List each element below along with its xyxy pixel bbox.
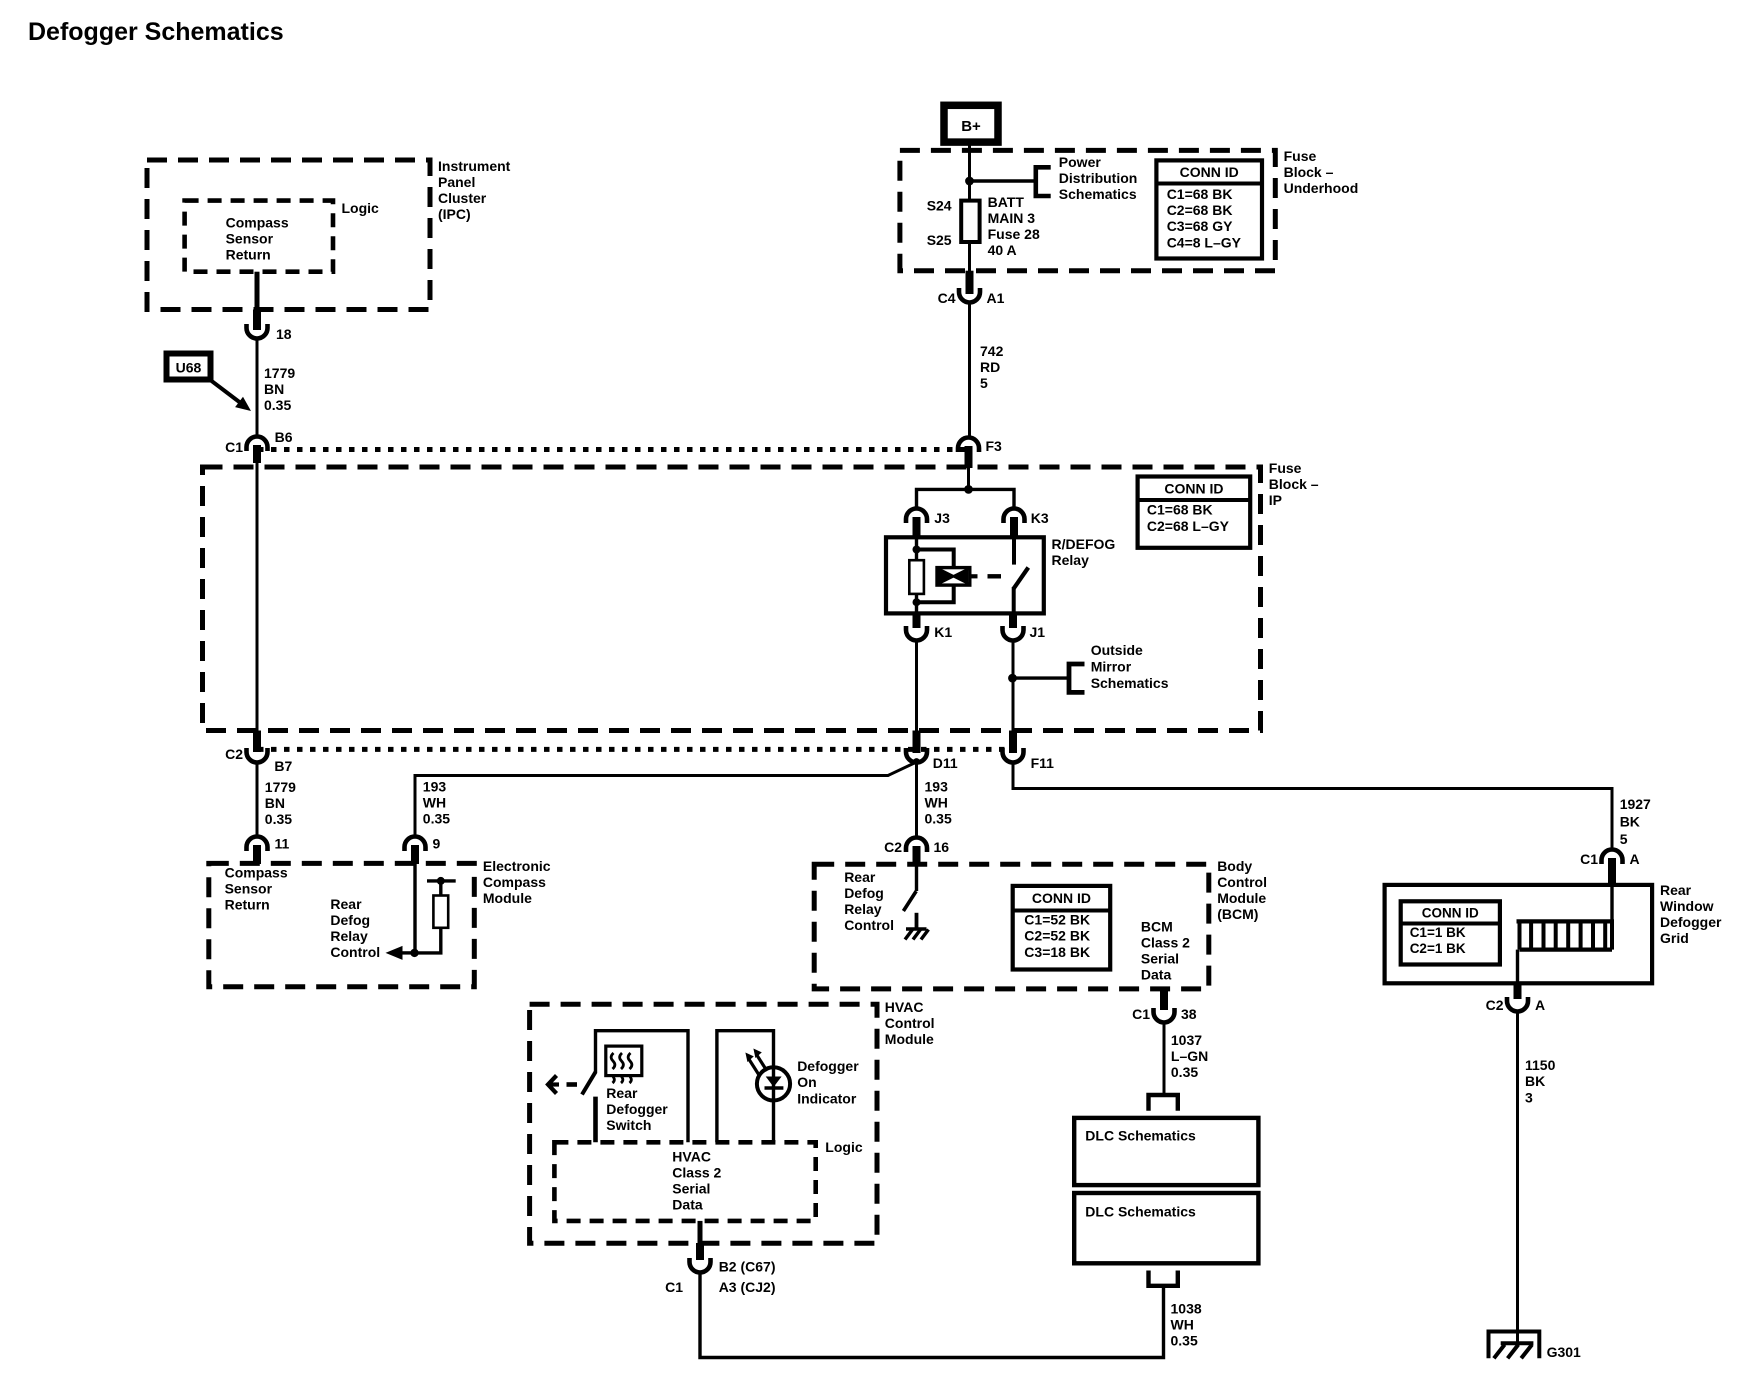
svg-text:0.35: 0.35 bbox=[264, 397, 291, 413]
svg-text:1779: 1779 bbox=[264, 365, 295, 381]
svg-text:Rear: Rear bbox=[606, 1085, 638, 1101]
pin stub K3 bbox=[1010, 517, 1018, 538]
wire 1037 L-GN bbox=[1163, 1023, 1166, 1096]
rear defogger heater icon bbox=[606, 1046, 642, 1076]
svg-text:Defogger: Defogger bbox=[797, 1058, 859, 1074]
off-page tab: Outside Mirror Schematics bbox=[1069, 664, 1085, 692]
fuse BATT MAIN 3 Fuse 28 40 A bbox=[961, 201, 979, 242]
svg-text:A: A bbox=[1535, 997, 1545, 1013]
svg-text:0.35: 0.35 bbox=[1171, 1333, 1198, 1349]
svg-text:193: 193 bbox=[925, 779, 949, 795]
junction: pull-up rail bbox=[437, 877, 445, 885]
wire: C1/A into grid bbox=[1610, 884, 1613, 921]
svg-text:B+: B+ bbox=[961, 118, 981, 135]
connector pin 9 bbox=[405, 837, 426, 851]
svg-text:D11: D11 bbox=[933, 755, 958, 771]
BCM output driver switch blade bbox=[903, 891, 916, 911]
wire: switch branch top bbox=[596, 1031, 689, 1143]
internal ground symbol (BCM) bbox=[906, 927, 927, 931]
svg-text:C2: C2 bbox=[1486, 997, 1504, 1013]
wire: 16 to driver switch bbox=[915, 865, 918, 891]
svg-text:11: 11 bbox=[275, 836, 290, 852]
svg-text:L–GN: L–GN bbox=[1171, 1048, 1208, 1064]
svg-text:WH: WH bbox=[925, 795, 948, 811]
svg-text:Logic: Logic bbox=[825, 1139, 863, 1155]
svg-text:Control: Control bbox=[885, 1015, 935, 1031]
svg-text:BATT: BATT bbox=[988, 194, 1025, 210]
wire: logic to C1 pin bbox=[698, 1221, 703, 1244]
relay switch lower contact wire bbox=[1012, 587, 1016, 613]
svg-text:Logic: Logic bbox=[342, 200, 380, 216]
svg-text:0.35: 0.35 bbox=[423, 811, 450, 827]
svg-text:G301: G301 bbox=[1547, 1344, 1581, 1360]
pin stub 9 bbox=[411, 845, 419, 864]
svg-text:Class 2: Class 2 bbox=[672, 1165, 721, 1181]
svg-text:WH: WH bbox=[423, 795, 446, 811]
module box: Fuse Block - Underhood bbox=[900, 150, 1275, 270]
pin stub 18 bbox=[253, 310, 261, 331]
wire: B+ to fuse bbox=[968, 142, 971, 201]
svg-text:C3=68 GY: C3=68 GY bbox=[1167, 218, 1233, 234]
pin stub C2/16 bbox=[913, 846, 921, 866]
junction: outside mirror tap bbox=[1008, 674, 1017, 683]
svg-text:5: 5 bbox=[980, 375, 988, 391]
svg-text:Body: Body bbox=[1217, 858, 1252, 874]
svg-text:K1: K1 bbox=[934, 624, 952, 640]
svg-text:1038: 1038 bbox=[1171, 1301, 1202, 1317]
wire: switch lower contact bbox=[593, 1097, 598, 1143]
svg-text:742: 742 bbox=[980, 343, 1004, 359]
svg-text:WH: WH bbox=[1171, 1317, 1194, 1333]
junction: control node bbox=[410, 949, 418, 957]
connector K1 bbox=[906, 626, 927, 641]
svg-text:J3: J3 bbox=[934, 510, 950, 526]
pin stub C4/A1 bbox=[966, 271, 974, 294]
svg-text:J1: J1 bbox=[1030, 624, 1046, 640]
svg-text:Window: Window bbox=[1660, 898, 1714, 914]
svg-text:Control: Control bbox=[1217, 874, 1267, 890]
svg-text:Outside: Outside bbox=[1091, 642, 1143, 658]
svg-text:(BCM): (BCM) bbox=[1217, 906, 1258, 922]
svg-text:BN: BN bbox=[264, 381, 284, 397]
svg-text:C2=52 BK: C2=52 BK bbox=[1024, 928, 1090, 944]
pin stub C1/B6 bbox=[253, 445, 261, 463]
svg-text:Rear: Rear bbox=[330, 896, 362, 912]
wire: rail to resistor bbox=[439, 881, 442, 896]
svg-text:1927: 1927 bbox=[1620, 796, 1651, 812]
wire 1038 WH: DLC to HVAC bbox=[700, 1273, 1164, 1358]
svg-text:Sensor: Sensor bbox=[226, 231, 274, 247]
svg-text:RD: RD bbox=[980, 359, 1000, 375]
svg-text:CONN ID: CONN ID bbox=[1422, 905, 1479, 920]
logic box: HVAC Logic bbox=[554, 1142, 815, 1221]
svg-text:Defogger: Defogger bbox=[606, 1101, 668, 1117]
wire: compass return through fuse block IP bbox=[256, 462, 259, 732]
module box: HVAC Control Module bbox=[530, 1004, 877, 1243]
connector F11 bbox=[1003, 748, 1024, 763]
wire 1150 BK 3 bbox=[1516, 1012, 1519, 1344]
svg-text:S24: S24 bbox=[927, 198, 952, 214]
logic box: IPC Logic bbox=[185, 201, 333, 272]
svg-text:A3 (CJ2): A3 (CJ2) bbox=[719, 1279, 776, 1295]
relay switch contact (from K3) bbox=[1012, 537, 1016, 564]
svg-text:Control: Control bbox=[844, 917, 894, 933]
svg-text:Module: Module bbox=[885, 1031, 934, 1047]
connector C1 / A (grid) bbox=[1602, 850, 1623, 865]
wire: F3 to relay junction bbox=[967, 466, 970, 489]
module box: Rear Window Defogger Grid bbox=[1385, 885, 1653, 983]
pin stub J3 bbox=[913, 517, 921, 538]
ground G301 bbox=[1489, 1332, 1540, 1359]
svg-text:K3: K3 bbox=[1031, 510, 1049, 526]
module box: Electronic Compass Module bbox=[209, 863, 475, 986]
wire: F11 to rear window defogger grid (1927 BK) bbox=[1013, 763, 1612, 850]
svg-text:F11: F11 bbox=[1031, 755, 1055, 771]
svg-text:Electronic: Electronic bbox=[483, 858, 551, 874]
wire: grid to C2/A bbox=[1516, 950, 1519, 984]
callout box U68 bbox=[167, 354, 211, 380]
svg-text:C1: C1 bbox=[1132, 1006, 1150, 1022]
svg-text:C1=1 BK: C1=1 BK bbox=[1410, 925, 1466, 940]
svg-text:Rear: Rear bbox=[1660, 882, 1692, 898]
svg-text:Control: Control bbox=[330, 944, 380, 960]
svg-text:Return: Return bbox=[226, 247, 271, 263]
connector C1 / B2(C67) A3(CJ2) bbox=[690, 1258, 711, 1273]
connector C1 / 38 bbox=[1154, 1008, 1175, 1023]
svg-text:B6: B6 bbox=[275, 429, 293, 445]
svg-text:MAIN 3: MAIN 3 bbox=[988, 210, 1036, 226]
svg-text:C1=68 BK: C1=68 BK bbox=[1147, 502, 1213, 518]
svg-text:Cluster: Cluster bbox=[438, 190, 487, 206]
wire: pin 9 into module bbox=[413, 863, 416, 953]
svg-text:Rear: Rear bbox=[844, 869, 876, 885]
relay actuation dashed link bbox=[988, 574, 1002, 578]
svg-text:Block –: Block – bbox=[1269, 476, 1319, 492]
svg-text:Panel: Panel bbox=[438, 174, 475, 190]
relay coil (box with X) bbox=[937, 568, 970, 586]
module box: Body Control Module (BCM) bbox=[814, 864, 1209, 989]
svg-text:Switch: Switch bbox=[606, 1117, 651, 1133]
junction: D11 splice bbox=[913, 758, 920, 765]
svg-text:Fuse 28: Fuse 28 bbox=[988, 226, 1040, 242]
conn id table: defogger grid bbox=[1401, 901, 1500, 964]
svg-text:0.35: 0.35 bbox=[1171, 1064, 1198, 1080]
svg-text:C1=68 BK: C1=68 BK bbox=[1167, 186, 1233, 202]
pin stub C1/38 bbox=[1160, 989, 1168, 1010]
connector C4 / A1 bbox=[959, 288, 980, 303]
connector pin 18 bbox=[247, 324, 268, 339]
svg-text:Compass: Compass bbox=[226, 215, 289, 231]
svg-text:9: 9 bbox=[433, 836, 441, 852]
wire: split to J3 and K3 bbox=[917, 489, 1015, 508]
svg-text:CONN ID: CONN ID bbox=[1164, 480, 1223, 496]
svg-text:18: 18 bbox=[276, 326, 292, 342]
svg-text:40 A: 40 A bbox=[988, 242, 1017, 258]
svg-text:R/DEFOG: R/DEFOG bbox=[1052, 536, 1116, 552]
junction: relay feed split bbox=[964, 485, 973, 494]
conn id table: Fuse Block IP bbox=[1138, 477, 1251, 548]
svg-text:Defog: Defog bbox=[330, 912, 370, 928]
svg-text:A: A bbox=[1630, 851, 1640, 867]
switch actuator arrow bbox=[548, 1076, 557, 1094]
conn id table: BCM bbox=[1013, 886, 1110, 970]
wire: J1 down to F11 bbox=[1012, 641, 1015, 733]
callout arrow U68 bbox=[209, 379, 240, 403]
switch actuator dashed link bbox=[567, 1082, 578, 1087]
relay coil branch wires bbox=[915, 537, 918, 560]
svg-text:38: 38 bbox=[1181, 1006, 1197, 1022]
pin stub K1 bbox=[913, 613, 921, 628]
connector C1 / B6 bbox=[247, 437, 268, 451]
svg-text:B7: B7 bbox=[274, 758, 292, 774]
svg-text:1037: 1037 bbox=[1171, 1032, 1202, 1048]
pin stub C1/A bbox=[1608, 858, 1616, 886]
svg-text:5: 5 bbox=[1620, 831, 1628, 847]
svg-text:On: On bbox=[797, 1074, 816, 1090]
svg-text:Data: Data bbox=[1141, 967, 1172, 983]
wire: tap to power distribution tab bbox=[970, 179, 1036, 182]
svg-text:Schematics: Schematics bbox=[1059, 186, 1137, 202]
svg-text:C2=1 BK: C2=1 BK bbox=[1410, 941, 1466, 956]
svg-text:DLC Schematics: DLC Schematics bbox=[1085, 1128, 1196, 1144]
pin stub D11 bbox=[913, 731, 921, 754]
off-page bracket (top DLC) bbox=[1149, 1095, 1178, 1111]
connector K3 bbox=[1004, 509, 1025, 523]
connector J3 bbox=[906, 509, 927, 523]
svg-text:0.35: 0.35 bbox=[925, 811, 952, 827]
svg-text:C2: C2 bbox=[884, 839, 902, 855]
svg-text:A1: A1 bbox=[987, 290, 1005, 306]
wire: switch to internal ground bbox=[915, 913, 919, 929]
LED indicator (Defogger On) bbox=[757, 1067, 790, 1100]
svg-text:Sensor: Sensor bbox=[225, 881, 273, 897]
svg-text:C4: C4 bbox=[938, 290, 956, 306]
svg-text:Class 2: Class 2 bbox=[1141, 935, 1190, 951]
svg-text:1150: 1150 bbox=[1525, 1057, 1556, 1073]
svg-text:C2=68 L–GY: C2=68 L–GY bbox=[1147, 518, 1230, 534]
svg-text:Relay: Relay bbox=[1052, 552, 1090, 568]
svg-text:U68: U68 bbox=[176, 360, 202, 376]
svg-text:Compass: Compass bbox=[483, 874, 546, 890]
svg-text:Serial: Serial bbox=[672, 1181, 710, 1197]
junction: power distribution tap bbox=[965, 177, 974, 186]
off-page tab: Power Distribution Schematics bbox=[1036, 167, 1051, 196]
connector J1 bbox=[1003, 626, 1024, 641]
reference box: DLC Schematics (2) bbox=[1074, 1193, 1258, 1263]
svg-text:S25: S25 bbox=[927, 232, 952, 248]
signal arrow: rear defog relay control bbox=[401, 951, 415, 954]
svg-text:DLC Schematics: DLC Schematics bbox=[1085, 1204, 1196, 1220]
resistor (compass module pull-up) bbox=[433, 896, 448, 928]
relay switch blade bbox=[1014, 568, 1029, 589]
svg-text:Grid: Grid bbox=[1660, 930, 1689, 946]
pin stub C2/B7 bbox=[253, 731, 261, 753]
svg-text:C1: C1 bbox=[665, 1279, 683, 1295]
svg-text:BK: BK bbox=[1620, 814, 1640, 830]
svg-text:C3=18 BK: C3=18 BK bbox=[1024, 944, 1090, 960]
svg-text:Defogger: Defogger bbox=[1660, 914, 1722, 930]
svg-text:Compass: Compass bbox=[225, 865, 288, 881]
wire: tap to outside mirror tab bbox=[1013, 676, 1069, 679]
svg-text:Relay: Relay bbox=[844, 901, 882, 917]
wire: K1 down to D11 bbox=[915, 641, 918, 733]
power symbol B+ bbox=[944, 105, 998, 142]
wire: compass sensor return inside IPC bbox=[255, 272, 260, 311]
pin stub F3 bbox=[965, 446, 973, 468]
harness dotted line (C1/B6 to F3) bbox=[258, 447, 968, 452]
svg-text:Defog: Defog bbox=[844, 885, 884, 901]
svg-text:Instrument: Instrument bbox=[438, 158, 511, 174]
pin stub F11 bbox=[1009, 731, 1017, 754]
svg-text:C4=8 L–GY: C4=8 L–GY bbox=[1167, 234, 1242, 250]
svg-text:Module: Module bbox=[1217, 890, 1266, 906]
svg-text:193: 193 bbox=[423, 779, 447, 795]
svg-text:C2=68 BK: C2=68 BK bbox=[1167, 202, 1233, 218]
svg-text:BN: BN bbox=[265, 795, 285, 811]
module box: Instrument Panel Cluster (IPC) bbox=[147, 160, 430, 310]
svg-text:Defogger Schematics: Defogger Schematics bbox=[28, 18, 284, 46]
svg-text:16: 16 bbox=[934, 839, 950, 855]
connector pin 11 bbox=[247, 837, 268, 851]
connector C2 / 16 bbox=[906, 838, 927, 852]
svg-text:Indicator: Indicator bbox=[797, 1090, 857, 1106]
svg-text:CONN ID: CONN ID bbox=[1180, 164, 1239, 180]
wire: D11 down to BCM C2/16 (193 WH) bbox=[915, 763, 918, 837]
wire 742 RD 5 bbox=[968, 303, 971, 438]
svg-text:C2: C2 bbox=[225, 746, 243, 762]
wire 1779 BN (lower) bbox=[256, 763, 259, 837]
svg-text:C1=52 BK: C1=52 BK bbox=[1024, 912, 1090, 928]
svg-text:BK: BK bbox=[1525, 1073, 1545, 1089]
svg-text:HVAC: HVAC bbox=[885, 999, 924, 1015]
rear defogger switch blade bbox=[582, 1072, 596, 1095]
svg-text:Power: Power bbox=[1059, 154, 1102, 170]
svg-text:Mirror: Mirror bbox=[1091, 659, 1132, 675]
svg-text:Underhood: Underhood bbox=[1284, 180, 1359, 196]
svg-text:Data: Data bbox=[672, 1197, 703, 1213]
svg-text:IP: IP bbox=[1269, 492, 1282, 508]
svg-text:Return: Return bbox=[225, 897, 270, 913]
wire: resistor to control node bbox=[414, 928, 441, 953]
svg-text:Fuse: Fuse bbox=[1284, 148, 1317, 164]
svg-text:CONN ID: CONN ID bbox=[1032, 890, 1091, 906]
svg-text:Serial: Serial bbox=[1141, 951, 1179, 967]
conn id table: Fuse Block Underhood bbox=[1156, 160, 1262, 258]
reference box: DLC Schematics (1) bbox=[1074, 1118, 1258, 1185]
pin stub C2/A bbox=[1514, 983, 1522, 999]
wire: fuse to C4 bbox=[968, 242, 971, 272]
relay coil resistor bbox=[909, 560, 924, 594]
svg-text:0.35: 0.35 bbox=[265, 811, 292, 827]
svg-text:C1: C1 bbox=[1580, 851, 1598, 867]
pin stub J1 bbox=[1009, 613, 1017, 628]
relay coil actuation lead bbox=[970, 574, 978, 578]
connector C2 / B7 bbox=[247, 748, 268, 763]
pull-up rail wire bbox=[427, 879, 456, 882]
svg-text:B2 (C67): B2 (C67) bbox=[719, 1259, 776, 1275]
off-page bracket (bottom DLC) bbox=[1149, 1271, 1178, 1286]
svg-text:HVAC: HVAC bbox=[672, 1149, 711, 1165]
harness dotted line (C2/B7 to F11) bbox=[258, 747, 1012, 752]
wire: D11 to compass module pin 9 (193 WH) bbox=[415, 762, 917, 837]
pin stub HVAC C1 bbox=[696, 1243, 704, 1260]
module box: Fuse Block - IP bbox=[203, 467, 1261, 731]
defogger grid element bbox=[1517, 919, 1615, 923]
relay R/DEFOG box bbox=[886, 537, 1044, 613]
svg-text:3: 3 bbox=[1525, 1089, 1533, 1105]
wire 1779 BN (upper) bbox=[256, 339, 259, 438]
connector D11 bbox=[906, 748, 927, 763]
svg-text:Schematics: Schematics bbox=[1091, 675, 1169, 691]
LED light arrows bbox=[749, 1059, 760, 1076]
connector F3 bbox=[958, 438, 979, 453]
svg-text:BCM: BCM bbox=[1141, 919, 1173, 935]
svg-text:1779: 1779 bbox=[265, 779, 296, 795]
connector C2 / A (grid bottom) bbox=[1507, 997, 1528, 1012]
svg-text:Fuse: Fuse bbox=[1269, 460, 1302, 476]
svg-text:Module: Module bbox=[483, 890, 532, 906]
wire: LED branch bbox=[717, 1031, 774, 1143]
svg-text:C1: C1 bbox=[225, 439, 243, 455]
svg-text:(IPC): (IPC) bbox=[438, 206, 471, 222]
svg-text:Distribution: Distribution bbox=[1059, 170, 1138, 186]
svg-text:F3: F3 bbox=[986, 438, 1003, 454]
pin stub 11 bbox=[253, 845, 261, 864]
svg-text:Block –: Block – bbox=[1284, 164, 1334, 180]
svg-text:Relay: Relay bbox=[330, 928, 368, 944]
